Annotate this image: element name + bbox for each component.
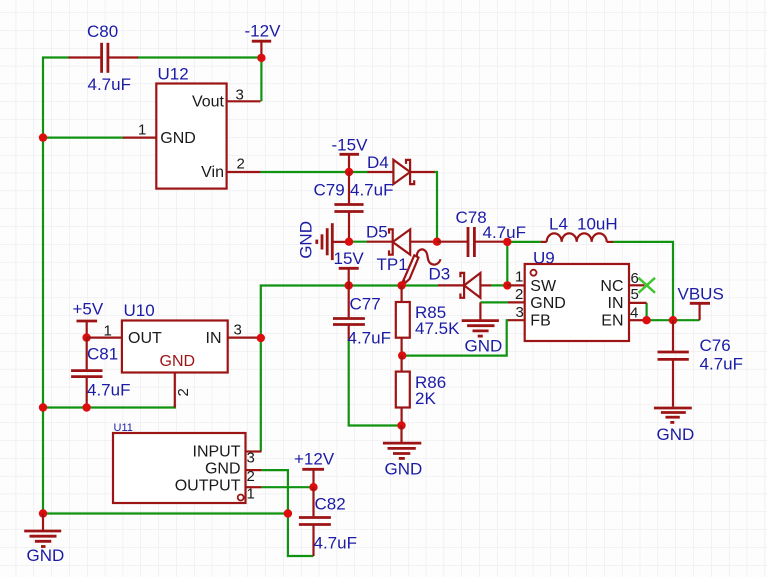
wire C82 bottom jog to ground row	[288, 514, 314, 557]
svg-text:C80: C80	[87, 22, 118, 41]
svg-text:4: 4	[630, 305, 638, 322]
junction U10 IN node	[257, 334, 265, 342]
svg-text:4.7uF: 4.7uF	[88, 75, 131, 94]
svg-text:-15V: -15V	[332, 136, 369, 155]
svg-text:2: 2	[237, 156, 245, 173]
pin 2 GND	[246, 469, 262, 471]
svg-text:GND: GND	[205, 461, 241, 478]
wire left column vertical	[43, 58, 70, 514]
capacitor C78	[437, 208, 526, 257]
svg-text:2: 2	[247, 468, 255, 485]
ground GND (under C76)	[654, 408, 694, 444]
wire C80 right to -12V node	[137, 56, 261, 58]
svg-text:OUT: OUT	[128, 330, 162, 347]
svg-text:NC: NC	[600, 278, 623, 295]
wire C78 right node to L4	[507, 241, 541, 243]
svg-text:4.7uF: 4.7uF	[314, 534, 357, 553]
ground GND (U9 pin 2)	[462, 302, 503, 355]
svg-text:TP1: TP1	[377, 255, 408, 274]
power +5V	[73, 300, 104, 338]
svg-text:U10: U10	[124, 301, 155, 320]
svg-text:D4: D4	[367, 153, 389, 172]
svg-text:4.7uF: 4.7uF	[700, 355, 743, 374]
svg-text:IN: IN	[206, 330, 222, 347]
capacitor C77	[333, 286, 391, 348]
svg-text:C79: C79	[314, 181, 345, 200]
wire U12 Vin to -15V node to D4	[260, 171, 368, 173]
junction -15V node	[345, 168, 353, 176]
svg-text:+5V: +5V	[73, 300, 104, 319]
svg-text:GND: GND	[160, 130, 196, 147]
pin 1 indicator	[238, 495, 244, 501]
wire C78 node down to U9 SW node	[506, 242, 508, 286]
wire GND node to D5 anode	[349, 241, 368, 243]
junction C78 right node	[503, 238, 511, 246]
resistor R85	[396, 286, 460, 356]
junction 15V node	[345, 281, 353, 289]
svg-text:6: 6	[631, 270, 639, 287]
svg-text:IN: IN	[608, 295, 624, 312]
power -15V	[332, 136, 369, 173]
IC U10	[87, 301, 261, 408]
wire EN row to VBUS	[644, 319, 700, 321]
wire U11 GND jog down to ground row	[261, 470, 288, 513]
resistor R86	[396, 356, 446, 426]
svg-text:C81: C81	[87, 345, 118, 364]
svg-text:FB: FB	[530, 312, 550, 329]
power 15V	[334, 249, 365, 286]
wire R85 R86 node to U9 FB pin	[403, 320, 509, 355]
pin 1 SW	[507, 284, 524, 286]
pin 1 OUT	[87, 337, 122, 339]
junction D5 cathode node	[433, 238, 441, 246]
junction R86 bottom node	[397, 421, 405, 429]
svg-text:-12V: -12V	[245, 22, 282, 41]
ground GND (rotated, left of C79 bottom)	[297, 221, 350, 260]
svg-text:1: 1	[515, 269, 523, 286]
svg-text:L4: L4	[549, 215, 568, 234]
svg-text:D3: D3	[429, 265, 451, 284]
svg-text:15V: 15V	[334, 249, 365, 268]
inductor L4	[541, 215, 618, 242]
pin 2 Vin	[227, 171, 261, 173]
svg-text:2: 2	[515, 286, 523, 303]
svg-text:C77: C77	[350, 295, 381, 314]
junction +12V node	[309, 483, 317, 491]
pin 3 FB	[508, 319, 525, 321]
capacitor C81	[71, 338, 130, 408]
wire D3 cathode to SW node	[491, 284, 508, 286]
wire -12V node down to U12 Vout	[260, 58, 262, 102]
pin 5 IN	[629, 302, 647, 304]
junction U9 SW node	[503, 281, 511, 289]
pin 2 GND	[174, 373, 176, 408]
power +12V	[294, 450, 335, 488]
diode D4	[367, 153, 435, 184]
svg-text:1: 1	[247, 486, 255, 503]
svg-text:2K: 2K	[415, 389, 436, 408]
svg-text:Vin: Vin	[201, 164, 224, 181]
junction R85 R86 node	[398, 351, 406, 359]
svg-text:C82: C82	[315, 495, 346, 514]
svg-text:GND: GND	[657, 425, 695, 444]
diode D5	[366, 223, 437, 255]
svg-text:Vout: Vout	[192, 94, 225, 111]
wire D4 cathode corner down to D5 row	[434, 172, 438, 242]
svg-text:OUTPUT: OUTPUT	[175, 478, 241, 495]
svg-text:C76: C76	[700, 336, 731, 355]
svg-text:3: 3	[236, 87, 244, 104]
test point TP1	[377, 249, 441, 285]
wire L4 right to corner down to EN row	[613, 242, 673, 320]
svg-text:EN: EN	[601, 312, 623, 329]
pin 3 INPUT	[246, 450, 262, 452]
wire C77 bottom down and right to R86 bottom node	[349, 340, 402, 426]
junction EN node 1	[642, 316, 650, 324]
svg-text:1: 1	[104, 323, 112, 340]
wire U10 IN node down to U11 INPUT pin	[260, 338, 262, 452]
svg-text:GND: GND	[27, 546, 65, 565]
capacitor C80	[69, 22, 139, 94]
svg-text:GND: GND	[465, 337, 503, 356]
junction EN node 2	[669, 316, 677, 324]
svg-text:4.7uF: 4.7uF	[87, 381, 130, 400]
svg-text:5: 5	[631, 286, 639, 303]
power -12V	[245, 22, 282, 58]
wire ground row bottom	[43, 512, 288, 514]
wire U11 OUTPUT to +12V node	[261, 486, 313, 488]
svg-text:+12V: +12V	[294, 450, 335, 469]
ground GND (bottom left)	[24, 514, 64, 566]
pin 1 indicator	[531, 270, 537, 276]
svg-text:2: 2	[175, 388, 192, 396]
svg-text:1: 1	[138, 122, 146, 139]
svg-text:3: 3	[247, 450, 255, 467]
svg-text:U12: U12	[158, 65, 189, 84]
junction ground row U11 node	[284, 509, 292, 517]
diode D3	[429, 265, 492, 298]
svg-text:3: 3	[516, 304, 524, 321]
pin 4 EN	[629, 319, 644, 321]
junction U12 GND row	[39, 133, 47, 141]
pin 1 OUTPUT	[246, 486, 262, 488]
pin 6 NC	[629, 284, 644, 286]
wire U10 GND row to left column	[43, 405, 175, 408]
svg-text:4.7uF: 4.7uF	[350, 181, 393, 200]
svg-text:3: 3	[234, 322, 242, 339]
svg-text:SW: SW	[530, 278, 557, 295]
no-connect X on pin 6	[639, 278, 656, 293]
capacitor C76	[658, 320, 743, 407]
junction ground row left node	[39, 509, 47, 517]
junction TP1 node	[397, 281, 405, 289]
capacitor C82	[299, 487, 357, 556]
pin 3 IN	[228, 337, 261, 339]
svg-text:47.5K: 47.5K	[415, 319, 460, 338]
junction -12V node	[257, 54, 265, 62]
pin 3 Vout	[227, 100, 261, 102]
wire U9 IN pin down to EN row	[645, 303, 647, 320]
IC U11	[113, 422, 261, 503]
pin 1 GND	[123, 137, 156, 139]
junction +5V node	[82, 333, 90, 341]
svg-text:GND: GND	[160, 353, 196, 370]
pin 2 GND	[508, 301, 525, 303]
svg-text:INPUT: INPUT	[193, 444, 241, 461]
junction D5 anode node	[345, 238, 353, 246]
ground GND (under R86)	[383, 426, 422, 479]
power VBUS	[678, 285, 724, 321]
svg-text:D5: D5	[366, 223, 388, 242]
svg-text:GND: GND	[530, 295, 566, 312]
wire U9 GND pin to ground symbol	[480, 301, 508, 303]
svg-text:10uH: 10uH	[577, 215, 618, 234]
junction left column GND row node	[39, 403, 47, 411]
svg-text:GND: GND	[385, 460, 423, 479]
svg-text:GND: GND	[297, 221, 316, 259]
IC U9	[507, 249, 646, 342]
junction C81 bottom node	[82, 403, 90, 411]
svg-text:4.7uF: 4.7uF	[348, 329, 391, 348]
capacitor C79	[314, 172, 394, 242]
IC U12	[123, 65, 261, 189]
wire left column to U12 GND pin	[43, 137, 124, 139]
wire 15V row from corner through TP1 to D3 anode	[261, 286, 438, 339]
svg-text:VBUS: VBUS	[678, 285, 724, 304]
